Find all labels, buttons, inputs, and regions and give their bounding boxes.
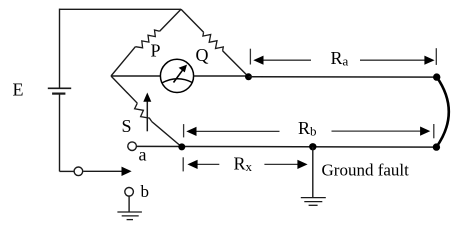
wire galvanometer branch left [111,75,160,77]
resistor P zigzag [135,30,159,48]
wire S branch lower segment to bottom junction [152,122,182,147]
dimension Ra left arrow [253,56,311,65]
wire bottom cable run [137,145,437,148]
svg-text:Rb: Rb [298,118,317,139]
switch pole terminal (open circle) [74,167,83,176]
wire P branch upper segment to apex [160,9,181,31]
dimension Rx left tick [182,157,184,171]
dimension Rb left tick [183,124,185,137]
wire Q branch lower segment to right bridge node [223,51,249,77]
node ground fault point [309,143,316,150]
resistor Q zigzag [203,32,223,51]
svg-text:S: S [122,116,132,136]
dimension Ra left tick [249,49,251,65]
wire S branch upper segment from left vertex [111,76,137,103]
galvanometer needle [174,65,188,83]
dimension Rb right tick [433,124,435,138]
rheostat S zigzag [135,103,152,121]
svg-text:Ra: Ra [331,48,349,69]
cable loop arc [436,77,448,147]
svg-text:Rx: Rx [234,154,253,175]
dimension Rb left arrow [186,127,279,136]
svg-text:Q: Q [196,45,209,65]
node cable far end bottom [433,143,440,150]
svg-text:b: b [141,182,150,201]
wire terminal b to ground [128,196,130,212]
dimension Rb right arrow [332,127,431,136]
wire left vertical from top corner down to battery [59,9,61,89]
switch blade wire with arrow toward terminals a/b [83,167,131,176]
rheostat S slider arrow [143,93,151,132]
wire below battery down to bottom-left corner [59,94,61,172]
node right bridge junction [245,73,252,80]
svg-text:E: E [13,80,24,100]
battery E plates [48,88,71,93]
galvanometer scale arc [162,79,192,83]
wire bottom-left horizontal to switch pole circle [60,170,74,172]
node cable far end top [433,73,440,80]
dimension Rx right arrow [264,160,307,169]
ground (terminal b) symbol [117,212,141,220]
ground (fault) symbol [301,198,326,206]
svg-text:a: a [139,144,147,164]
wire top cable run Ra [249,76,437,78]
wire P branch lower segment (left vertex up to resistor) [111,47,135,76]
dimension Ra right arrow [360,56,435,65]
dimension Rx left arrow [187,160,219,169]
wire Q branch upper segment from apex [181,9,204,32]
node bottom left junction [178,143,185,150]
terminal a (open circle) [128,142,137,151]
wire top horizontal from battery column to bridge apex [60,8,182,10]
wire ground fault drop [312,147,314,198]
terminal b (open circle) [125,188,134,197]
dimension Ra right tick [435,48,437,65]
svg-text:P: P [151,41,161,61]
wire galvanometer branch right [194,75,249,77]
op-amp galvanometer G body [160,59,193,92]
svg-text:Ground fault: Ground fault [322,161,410,180]
